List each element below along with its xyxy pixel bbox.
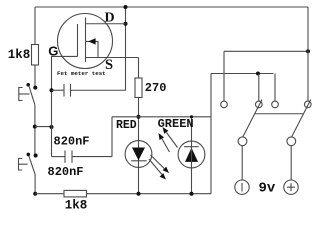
wire left drop to R1: [34, 7, 36, 45]
switch link bar: [255, 113, 304, 115]
wire drain drop: [125, 7, 127, 91]
wire right rail: [307, 7, 309, 101]
wire T3 drop: [274, 74, 276, 102]
svg-text:S: S: [105, 57, 113, 73]
terminal T4: [305, 101, 312, 108]
svg-text:820nF: 820nF: [54, 135, 90, 149]
LED green D2: [178, 117, 205, 194]
mosfet source lead: [86, 57, 139, 59]
wire LED box top edge: [112, 116, 211, 118]
mosfet Q1 body: [58, 14, 113, 69]
svg-text:D: D: [105, 11, 115, 26]
push button SW2: [19, 156, 36, 174]
svg-text:RED: RED: [116, 119, 137, 132]
svg-text:820nF: 820nF: [48, 165, 84, 179]
LED red D1: [125, 141, 152, 168]
mosfet channel bar: [85, 18, 87, 63]
terminal T2: [255, 101, 262, 108]
battery plus terminal: [284, 180, 298, 194]
node mid link: [256, 72, 260, 76]
node top rail drain: [124, 5, 128, 9]
svg-text:1k8: 1k8: [8, 48, 31, 62]
gate lead: [52, 56, 78, 156]
node drain: [124, 22, 128, 26]
node bottom left: [33, 192, 37, 196]
capacitor C2: [52, 150, 113, 162]
wire bottom rail: [87, 193, 212, 195]
svg-text:1k8: 1k8: [65, 198, 88, 212]
LED green arrows: [159, 127, 178, 152]
resistor R2 270: [135, 78, 142, 98]
terminal T3: [272, 101, 279, 108]
capacitor C1: [52, 84, 126, 97]
wire switch upper link: [224, 50, 308, 52]
terminal T1: [221, 101, 228, 108]
switch pole M2: [287, 137, 296, 146]
LED red arrows: [149, 155, 169, 180]
node LED top rail: [137, 115, 141, 119]
node button1 top: [33, 86, 37, 90]
wire button1 to junction: [34, 105, 36, 156]
node button2 top: [34, 154, 38, 158]
wire R2 to LED rail: [138, 98, 140, 194]
resistor R4 1k8 (horizontal): [64, 190, 87, 197]
wire mid link: [211, 73, 274, 75]
wire T2 drop: [258, 74, 260, 102]
wire R1 to button1: [34, 65, 36, 88]
svg-text:Fet meter test: Fet meter test: [57, 70, 106, 77]
node GREEN bottom: [190, 192, 194, 196]
mosfet gate bar: [77, 24, 79, 56]
node button2 lever tip: [27, 153, 31, 157]
wire button2 to bottom rail: [34, 174, 36, 193]
battery minus terminal: [235, 180, 249, 194]
wire source to R2: [138, 58, 140, 79]
node RED bottom: [137, 192, 141, 196]
wire LED box left edge: [111, 117, 113, 157]
node right rail link: [306, 49, 310, 53]
wire T1 drop: [223, 51, 225, 101]
push button SW1: [19, 86, 35, 105]
node GREEN top: [190, 115, 193, 118]
resistor R1 1k8 (vertical): [32, 45, 39, 66]
mosfet arrow: [86, 38, 99, 57]
node left junction: [33, 125, 37, 129]
node gate junction: [50, 125, 54, 129]
mosfet drain lead: [86, 23, 126, 25]
wire M1 to battery: [241, 146, 243, 180]
switch lever 2: [292, 100, 311, 138]
wire top rail: [35, 6, 308, 8]
wire junction to gate line: [35, 126, 52, 128]
svg-text:9v: 9v: [259, 180, 276, 196]
wire box right edge: [210, 74, 212, 194]
node gate-cap1: [50, 88, 54, 92]
switch pole M1: [238, 137, 247, 146]
switch lever 1: [243, 100, 262, 138]
svg-text:G: G: [48, 43, 58, 58]
wire M2 to battery: [290, 146, 292, 180]
wire bottom to R4: [35, 193, 64, 195]
node button1 lever tip: [26, 83, 30, 87]
svg-text:270: 270: [145, 81, 167, 95]
